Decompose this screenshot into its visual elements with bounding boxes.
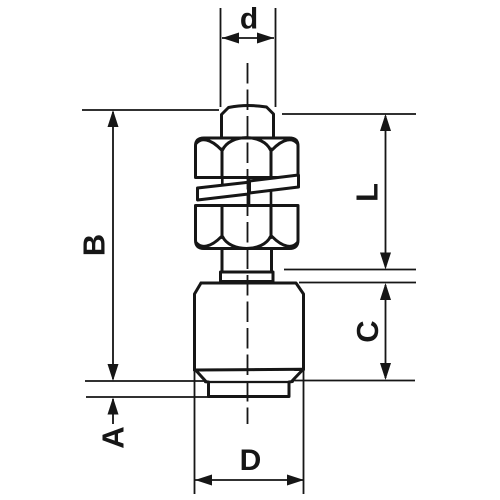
hex nut (bottom) chamfer arcs (197, 237, 298, 249)
hex nut (top) chamfer arcs (197, 138, 298, 150)
svg-text:L: L (350, 183, 385, 202)
dimension line L (385, 116, 387, 267)
body (195, 283, 304, 370)
body bottom edge (195, 368, 304, 372)
svg-text:C: C (350, 320, 385, 342)
extension line d right (275, 8, 277, 107)
extension line B top (82, 109, 219, 111)
threaded stud lower (222, 249, 272, 273)
centerline (vertical chain line) (247, 63, 249, 424)
spring washer divider stub upper (221, 178, 224, 187)
hex nut (bottom) outline (196, 206, 299, 249)
extension line C top (299, 282, 416, 284)
dimension / extension lines (82, 8, 416, 494)
body bottom chamfer left (196, 371, 206, 382)
extension line L bottom (284, 269, 416, 271)
dimension line d (222, 37, 274, 39)
pilot step top edge (209, 381, 290, 383)
spring washer right bar (250, 175, 299, 193)
extension line d left (220, 8, 222, 107)
hex nut (top) flat dividers (222, 149, 271, 178)
dimension A lower arrow (112, 399, 114, 424)
extension line L top (282, 113, 416, 115)
svg-text:D: D (240, 444, 262, 477)
extension line D left (194, 371, 196, 494)
dome head (222, 106, 274, 138)
pilot step (206, 382, 293, 397)
svg-text:d: d (240, 3, 258, 36)
dimension line C (385, 285, 387, 378)
spring washer left bar (198, 182, 249, 200)
dimension line D (195, 479, 304, 481)
extension line A top left (85, 380, 205, 382)
extension line A bottom left (86, 396, 209, 398)
hex nut (bottom) flat dividers (222, 206, 271, 238)
collar (221, 272, 274, 282)
body bottom chamfer right (293, 370, 303, 381)
svg-text:B: B (76, 234, 111, 256)
extension line D right (303, 370, 305, 494)
dimension line B (112, 112, 114, 379)
spring washer split edge (248, 178, 251, 206)
hex nut (top) outline (196, 138, 299, 178)
spring washer divider stub lower (270, 189, 273, 206)
extension line C bottom / A right (292, 380, 415, 382)
svg-text:A: A (96, 426, 131, 448)
